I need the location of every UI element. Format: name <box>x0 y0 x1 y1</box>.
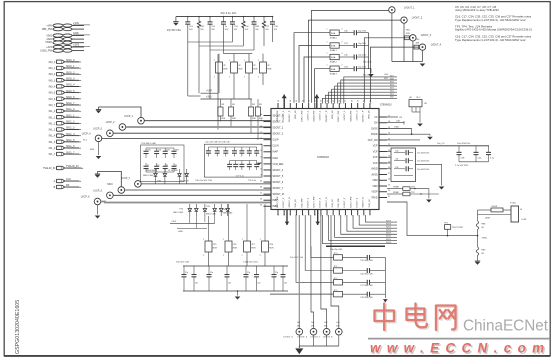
svg-text:10p C0G: 10p C0G <box>358 55 366 57</box>
svg-text:BGA: BGA <box>331 68 336 71</box>
svg-text:Type Replacements (1-LVIT100-3: Type Replacements (1-LVIT100-3) - GR 564… <box>455 18 526 22</box>
svg-text:49: 49 <box>260 180 262 182</box>
svg-text:DOUT_PW: DOUT_PW <box>350 196 352 208</box>
svg-text:LVCP_3: LVCP_3 <box>93 127 102 130</box>
svg-text:SIG1_3: SIG1_3 <box>66 127 75 130</box>
svg-text:27p: 27p <box>247 272 250 274</box>
svg-text:LVOUT_8: LVOUT_8 <box>323 337 333 339</box>
svg-text:IN1_3: IN1_3 <box>49 129 56 132</box>
svg-text:SDOUT_2: SDOUT_2 <box>273 128 284 130</box>
svg-text:10p C0G: 10p C0G <box>358 30 366 32</box>
svg-text:IN0_2: IN0_2 <box>49 73 56 76</box>
svg-text:30: 30 <box>388 190 390 192</box>
svg-text:C18 39p C0B: C18 39p C0B <box>360 297 373 299</box>
svg-text:SMLO 0B0: SMLO 0B0 <box>206 214 217 216</box>
svg-text:10n 50V/C0G: 10n 50V/C0G <box>417 161 430 163</box>
svg-text:31: 31 <box>388 196 390 198</box>
svg-text:IN1_2: IN1_2 <box>49 122 56 125</box>
svg-text:1: 1 <box>327 29 328 31</box>
svg-text:56: 56 <box>260 138 262 140</box>
svg-text:SIG0_4: SIG0_4 <box>66 84 75 87</box>
svg-text:DOUT_PW: DOUT_PW <box>338 110 340 122</box>
svg-text:57: 57 <box>345 100 347 102</box>
svg-text:BGA/L1: BGA/L1 <box>330 49 337 52</box>
svg-text:CK: CK <box>374 117 378 119</box>
svg-text:BGA/L3: BGA/L3 <box>330 72 337 75</box>
svg-text:SDO7: SDO7 <box>386 220 391 222</box>
svg-text:MOC: MOC <box>107 183 113 186</box>
svg-text:11: 11 <box>308 214 310 216</box>
svg-text:VSS_18: VSS_18 <box>295 199 297 208</box>
svg-text:/TLO: /TLO <box>416 97 421 99</box>
svg-text:10n 50V/C0G: 10n 50V/C0G <box>417 153 430 155</box>
svg-text:60: 60 <box>260 114 262 116</box>
svg-text:SDO6: SDO6 <box>386 224 391 226</box>
svg-text:SD1: SD1 <box>390 94 394 96</box>
svg-text:2: 2 <box>223 255 224 257</box>
svg-text:TVS: TVS <box>223 209 228 211</box>
svg-text:VCP: VCP <box>373 163 378 165</box>
svg-text:VRM8: VRM8 <box>393 187 400 189</box>
svg-text:LVCP_7: LVCP_7 <box>121 177 130 180</box>
svg-text:VSS_18: VSS_18 <box>332 199 334 208</box>
svg-text:VRM: VRM <box>372 180 377 182</box>
svg-text:R0R: R0R <box>213 248 218 250</box>
svg-text:DOUT_PW: DOUT_PW <box>277 196 279 208</box>
svg-text:LVOUT_6: LVOUT_6 <box>320 197 322 207</box>
svg-text:LVOUT_2: LVOUT_2 <box>412 17 423 20</box>
svg-text:58: 58 <box>351 100 353 102</box>
svg-text:IN1_7: IN1_7 <box>49 153 56 156</box>
svg-text:1: 1 <box>327 65 328 67</box>
svg-text:54: 54 <box>260 150 262 152</box>
svg-text:LVCP_1: LVCP_1 <box>124 115 133 118</box>
svg-text:1: 1 <box>327 53 328 55</box>
svg-text:GND: GND <box>178 231 183 233</box>
svg-text:SIG0_2: SIG0_2 <box>66 71 75 74</box>
svg-text:VCP: VCP <box>373 151 378 153</box>
svg-text:1: 1 <box>370 215 372 216</box>
svg-text:C15 39p C0B: C15 39p C0B <box>360 260 373 262</box>
svg-text:C17 39p C0B: C17 39p C0B <box>360 285 373 287</box>
svg-text:27p 50V C0G: 27p 50V C0G <box>290 257 304 259</box>
svg-text:27p 0.1u 10n: 27p 0.1u 10n <box>221 11 237 15</box>
svg-text:TVSD: TVSD <box>482 238 488 240</box>
svg-text:AVSS: AVSS <box>372 173 378 176</box>
svg-text:C3a 27p 50V C0G: C3a 27p 50V C0G <box>195 180 212 182</box>
svg-text:VCM_REF: VCM_REF <box>273 164 285 166</box>
svg-text:SDO1: SDO1 <box>386 239 391 241</box>
svg-text:1u: 1u <box>147 165 149 167</box>
svg-text:JP 2: JP 2 <box>334 278 338 280</box>
svg-text:10n 50V/C0G: 10n 50V/C0G <box>417 169 430 171</box>
svg-text:VSS_18: VSS_18 <box>369 199 371 208</box>
svg-text:SIG1_5: SIG1_5 <box>66 139 75 142</box>
svg-text:46: 46 <box>278 100 280 102</box>
svg-text:SIG0_0: SIG0_0 <box>66 59 75 62</box>
svg-text:2: 2 <box>342 65 343 67</box>
svg-text:using VR2A/1FF re-assy TVB-22: using VR2A/1FF re-assy TVB-2232 <box>455 8 499 12</box>
svg-text:1: 1 <box>230 23 231 25</box>
svg-text:2: 2 <box>229 77 230 79</box>
svg-text:LVOUT_6: LVOUT_6 <box>298 337 308 339</box>
svg-text:14: 14 <box>290 214 292 216</box>
svg-text:SDOUT_4: SDOUT_4 <box>273 170 284 172</box>
svg-text:S789/610: S789/610 <box>317 155 329 159</box>
svg-text:2: 2 <box>342 29 343 31</box>
svg-text:15: 15 <box>284 214 286 216</box>
svg-text:IN1_0: IN1_0 <box>49 110 56 113</box>
svg-text:50: 50 <box>260 174 262 176</box>
svg-text:JP 0: JP 0 <box>334 253 338 255</box>
svg-text:TVS: TVS <box>206 206 211 208</box>
svg-text:LVCP_5: LVCP_5 <box>93 189 102 192</box>
svg-text:CLK_PW: CLK_PW <box>338 198 340 208</box>
svg-text:C41: C41 <box>395 159 398 161</box>
svg-text:OK: OK <box>399 117 403 119</box>
svg-text:IN0_3: IN0_3 <box>49 79 56 82</box>
svg-text:1: 1 <box>221 23 222 25</box>
svg-text:LVCP_6: LVCP_6 <box>81 196 90 199</box>
svg-text:27p: 27p <box>275 272 278 274</box>
svg-text:T400: T400 <box>394 126 400 128</box>
svg-text:1: 1 <box>327 41 328 43</box>
svg-text:27p: 27p <box>185 272 188 274</box>
svg-text:10n: 10n <box>257 283 260 285</box>
svg-text:TVALID_IN: TVALID_IN <box>43 167 56 170</box>
svg-text:2: 2 <box>244 77 245 79</box>
svg-text:CLKN: CLKN <box>273 146 279 148</box>
svg-text:2: 2 <box>214 77 215 79</box>
svg-text:51: 51 <box>260 168 262 170</box>
svg-text:BGA/L0: BGA/L0 <box>330 36 337 39</box>
svg-text:BGA: BGA <box>331 56 336 59</box>
svg-text:TVS SMLO 0B0: TVS SMLO 0B0 <box>141 143 157 145</box>
svg-text:2: 2 <box>242 255 243 257</box>
svg-text:SDOUT_M: SDOUT_M <box>273 194 284 196</box>
svg-text:LVOUT_1: LVOUT_1 <box>404 7 415 10</box>
svg-text:INAN: INAN <box>273 157 279 160</box>
svg-text:LVOUT_2: LVOUT_2 <box>320 110 322 120</box>
svg-text:28: 28 <box>388 179 390 181</box>
svg-text:1: 1 <box>197 23 198 25</box>
svg-text:1: 1 <box>214 60 215 62</box>
svg-text:1: 1 <box>262 23 263 25</box>
svg-text:LVOUT_2: LVOUT_2 <box>283 110 285 120</box>
svg-text:1: 1 <box>208 23 209 25</box>
svg-text:55: 55 <box>260 144 262 146</box>
svg-text:+3V3: +3V3 <box>73 43 80 46</box>
svg-text:29: 29 <box>388 184 390 186</box>
svg-text:12: 12 <box>302 214 304 216</box>
svg-text:AVDD: AVDD <box>371 168 378 171</box>
svg-text:www.ECCN.com: www.ECCN.com <box>370 341 550 356</box>
svg-text:1: 1 <box>244 60 245 62</box>
svg-text:LVCP_4: LVCP_4 <box>82 133 91 136</box>
svg-text:C116 50V C0G: C116 50V C0G <box>243 262 258 264</box>
svg-text:SIG0_3: SIG0_3 <box>66 77 75 80</box>
svg-text:SIG1_6: SIG1_6 <box>66 145 75 148</box>
svg-text:LVOUT_5: LVOUT_5 <box>283 337 293 339</box>
svg-text:SDOUT_N: SDOUT_N <box>363 197 365 208</box>
svg-text:SD0: SD0 <box>390 97 394 99</box>
svg-text:C16 39p C0B: C16 39p C0B <box>360 273 373 275</box>
svg-text:49: 49 <box>296 100 298 102</box>
svg-text:SIG0_7: SIG0_7 <box>66 102 75 105</box>
svg-text:+3V3: +3V3 <box>171 221 177 223</box>
svg-text:1u: 1u <box>157 165 159 167</box>
svg-text:IN0_5: IN0_5 <box>49 92 56 95</box>
svg-text:SD4: SD4 <box>390 85 394 87</box>
svg-text:SDO2: SDO2 <box>386 236 391 238</box>
svg-text:SDOUT_6: SDOUT_6 <box>273 182 284 184</box>
svg-text:2: 2 <box>203 255 204 257</box>
svg-text:1u: 1u <box>175 165 177 167</box>
svg-text:C0G: C0G <box>384 74 389 76</box>
svg-text:1: 1 <box>260 239 261 241</box>
svg-text:27: 27 <box>388 173 390 175</box>
svg-text:S7999/610: S7999/610 <box>380 104 392 107</box>
svg-text:R0R: R0R <box>253 69 258 71</box>
svg-text:VDDD_PW: VDDD_PW <box>314 110 316 122</box>
svg-text:LVOUT_6: LVOUT_6 <box>283 197 285 207</box>
svg-text:SD2: SD2 <box>390 91 394 93</box>
svg-text:SDOUT_N: SDOUT_N <box>326 197 328 208</box>
svg-text:SIG1_1: SIG1_1 <box>66 114 75 117</box>
svg-text:SD3: SD3 <box>390 88 394 90</box>
svg-text:CLKOUT_P: CLKOUT_P <box>363 110 365 122</box>
svg-text:IN1_6: IN1_6 <box>49 147 56 150</box>
svg-text:SD5: SD5 <box>390 81 394 83</box>
svg-text:1: 1 <box>242 239 243 241</box>
svg-text:T35 0.1u: T35 0.1u <box>248 180 257 182</box>
svg-text:SDO5: SDO5 <box>386 227 391 229</box>
svg-text:JP 3: JP 3 <box>334 290 338 292</box>
svg-text:5V/0R: 5V/0R <box>492 206 498 208</box>
svg-text:R0R: R0R <box>269 248 274 250</box>
svg-text:1: 1 <box>186 23 187 25</box>
svg-text:VCP: VCP <box>373 146 378 148</box>
svg-text:C1b 39p C0B: C1b 39p C0B <box>330 249 343 251</box>
svg-text:39p C0G: 39p C0G <box>363 62 372 64</box>
svg-text:LVDS_PW: LVDS_PW <box>40 49 52 52</box>
svg-text:59: 59 <box>260 120 262 122</box>
svg-text:VBF_PW: VBF_PW <box>42 28 53 31</box>
svg-text:C40: C40 <box>395 151 398 153</box>
svg-text:SIG1_0: SIG1_0 <box>66 108 75 111</box>
svg-text:ChinaECNet: ChinaECNet <box>463 318 549 335</box>
svg-text:BGA: BGA <box>331 32 336 35</box>
svg-text:C0a 50V/C0G: C0a 50V/C0G <box>457 143 470 145</box>
svg-text:10n: 10n <box>284 283 287 285</box>
svg-text:LVOUT_2: LVOUT_2 <box>356 110 358 120</box>
svg-text:2: 2 <box>342 41 343 43</box>
svg-text:LVOUT_1: LVOUT_1 <box>344 110 346 120</box>
svg-text:IN0_4: IN0_4 <box>49 86 56 89</box>
svg-text:59: 59 <box>357 100 359 102</box>
svg-text:IN0_0: IN0_0 <box>49 61 56 64</box>
svg-text:1: 1 <box>241 23 242 25</box>
svg-text:CLKOUT_P: CLKOUT_P <box>289 110 291 122</box>
svg-text:52: 52 <box>260 162 262 164</box>
svg-text:2: 2 <box>260 255 261 257</box>
svg-text:JP LB 0R8: JP LB 0R8 <box>168 170 178 172</box>
svg-text:SIG0_1: SIG0_1 <box>66 65 75 68</box>
svg-text:R0R: R0R <box>267 69 272 71</box>
svg-text:10n: 10n <box>195 283 198 285</box>
svg-text:SD7: SD7 <box>390 75 394 77</box>
svg-text:IN0_7: IN0_7 <box>49 104 56 107</box>
svg-text:48: 48 <box>260 187 262 189</box>
svg-text:SD6: SD6 <box>390 78 394 80</box>
svg-text:CLKOUT_P: CLKOUT_P <box>326 110 328 122</box>
svg-text:TVALID_IN: TVALID_IN <box>66 165 79 168</box>
svg-text:LVOUT_5: LVOUT_5 <box>344 197 346 207</box>
svg-text:10/0R: 10/0R <box>485 218 491 220</box>
svg-text:+VCP: +VCP <box>206 91 213 93</box>
svg-text:BGA: BGA <box>331 45 336 48</box>
svg-text:VDDD_PW: VDDD_PW <box>277 110 279 122</box>
svg-text:+VIN: +VIN <box>73 22 79 25</box>
svg-text:CON4: CON4 <box>521 219 526 221</box>
svg-text:VRM: VRM <box>372 186 377 188</box>
svg-text:LVOUT_1: LVOUT_1 <box>307 110 309 120</box>
svg-text:R0R: R0R <box>251 248 256 250</box>
svg-text:DVSS: DVSS <box>371 128 378 130</box>
svg-text:SDOUT_5: SDOUT_5 <box>273 176 284 178</box>
svg-text:Type Replacements (1-LVIT100-3: Type Replacements (1-LVIT100-3) - GR 564… <box>455 38 526 42</box>
svg-text:+3V3: +3V3 <box>206 97 212 99</box>
svg-text:IN1_1: IN1_1 <box>49 116 56 119</box>
svg-text:LVOUT_4: LVOUT_4 <box>431 44 442 47</box>
svg-text:CLK_PW: CLK_PW <box>301 198 303 208</box>
svg-text:C37 0.1u: C37 0.1u <box>236 176 244 178</box>
svg-text:JP 1: JP 1 <box>334 266 338 268</box>
svg-text:SMLB 0B0: SMLB 0B0 <box>146 170 156 172</box>
svg-text:SDO0: SDO0 <box>386 242 391 244</box>
svg-text:VDD_18: VDD_18 <box>295 110 297 119</box>
svg-text:27p 50V C0G: 27p 50V C0G <box>176 262 190 264</box>
svg-text:R0R: R0R <box>233 248 238 250</box>
svg-text:LVCP_2: LVCP_2 <box>106 121 115 124</box>
svg-text:SIG1_2: SIG1_2 <box>66 121 75 124</box>
svg-text:SMLO 0B0: SMLO 0B0 <box>143 175 154 177</box>
svg-text:58: 58 <box>260 126 262 128</box>
svg-text:DOUT_PW: DOUT_PW <box>314 196 316 208</box>
svg-text:GND: GND <box>73 32 79 35</box>
svg-text:VDD_18: VDD_18 <box>332 110 334 119</box>
svg-text:DK: DK <box>66 184 70 187</box>
svg-text:45: 45 <box>260 205 262 207</box>
svg-text:DigiKey (470-1432-6-ND) Murata: DigiKey (470-1432-6-ND) Murata 10WR29075… <box>455 28 533 32</box>
svg-text:C3a C35 C38 C30 C3b C30: C3a C35 C38 C30 C3b C30 <box>205 142 231 144</box>
svg-text:1: 1 <box>223 239 224 241</box>
svg-text:IN0_1: IN0_1 <box>49 67 56 70</box>
svg-text:TVSD: TVSD <box>510 203 516 205</box>
svg-text:C42: C42 <box>395 167 398 169</box>
svg-text:2: 2 <box>258 77 259 79</box>
svg-text:CM: CM <box>374 123 378 125</box>
svg-text:DVDD: DVDD <box>371 134 378 136</box>
svg-text:10n_C0: 10n_C0 <box>437 143 445 145</box>
svg-text:10n: 10n <box>228 283 231 285</box>
svg-text:SMLO 0B0: SMLO 0B0 <box>173 212 184 214</box>
svg-text:46: 46 <box>260 199 262 201</box>
svg-text:SDO4: SDO4 <box>386 230 391 232</box>
svg-text:1: 1 <box>270 23 271 25</box>
svg-text:1u: 1u <box>166 165 168 167</box>
svg-text:IN1_4: IN1_4 <box>49 135 56 138</box>
svg-text:DOUT_PW: DOUT_PW <box>301 110 303 122</box>
svg-text:OUT_CM: OUT_CM <box>368 140 378 142</box>
svg-text:2: 2 <box>342 53 343 55</box>
svg-text:LVOUT_5: LVOUT_5 <box>307 197 309 207</box>
svg-text:SDOUT_3: SDOUT_3 <box>273 134 284 136</box>
svg-text:R0R: R0R <box>223 69 228 71</box>
svg-text:47: 47 <box>260 193 262 195</box>
svg-text:49R: 49R <box>406 33 410 35</box>
svg-text:IN0_6: IN0_6 <box>49 98 56 101</box>
svg-text:57: 57 <box>260 132 262 134</box>
svg-text:VSSP: VSSP <box>371 192 378 194</box>
svg-text:SDOUT_7: SDOUT_7 <box>273 188 284 190</box>
svg-text:10p C0G: 10p C0G <box>358 66 366 68</box>
svg-text:VSSD: VSSD <box>45 41 52 44</box>
svg-text:BGA/L2: BGA/L2 <box>330 61 337 64</box>
svg-text:VRM0: VRM0 <box>393 192 400 194</box>
svg-text:48: 48 <box>290 100 292 102</box>
svg-text:13: 13 <box>296 214 298 216</box>
svg-text:VDDD_PW: VDDD_PW <box>350 110 352 122</box>
svg-text:1: 1 <box>203 239 204 241</box>
svg-text:R0R: R0R <box>238 69 243 71</box>
svg-text:2.2u 50V X5R: 2.2u 50V X5R <box>455 165 468 167</box>
svg-text:27p 50V C0G: 27p 50V C0G <box>167 30 181 32</box>
svg-text:SIG0_6: SIG0_6 <box>66 96 75 99</box>
svg-text:TVS: TVS <box>179 209 184 211</box>
svg-text:39p C0G: 39p C0G <box>363 75 372 77</box>
svg-text:SIG0_5: SIG0_5 <box>66 90 75 93</box>
svg-text:1: 1 <box>229 60 230 62</box>
svg-text:SMLO 0B0: SMLO 0B0 <box>223 213 234 215</box>
svg-text:16: 16 <box>278 214 280 216</box>
svg-text:VCP: VCP <box>373 157 378 159</box>
svg-text:CLK: CLK <box>66 178 71 181</box>
svg-text:VDD_18: VDD_18 <box>369 110 371 119</box>
svg-text:SIG1_4: SIG1_4 <box>66 133 75 136</box>
svg-text:LVOUT_7: LVOUT_7 <box>311 337 321 339</box>
svg-text:1: 1 <box>252 23 253 25</box>
svg-text:SDO3: SDO3 <box>386 233 391 235</box>
svg-text:27p: 27p <box>210 272 213 274</box>
svg-text:SIG1_7: SIG1_7 <box>66 151 75 154</box>
svg-text:TRKD: TRKD <box>371 197 378 199</box>
svg-text:10: 10 <box>315 214 317 216</box>
svg-text:LVOUT_3: LVOUT_3 <box>421 34 432 37</box>
svg-text:INAP: INAP <box>273 151 279 154</box>
svg-text:53: 53 <box>260 156 262 158</box>
svg-text:TEST POINT: TEST POINT <box>452 227 464 229</box>
svg-text:GSPG01302040E1605: GSPG01302040E1605 <box>15 300 21 354</box>
svg-text:49R: 49R <box>416 42 420 44</box>
svg-text:SDOUT_N: SDOUT_N <box>289 197 291 208</box>
svg-text:LVOUT_6: LVOUT_6 <box>356 197 358 207</box>
svg-text:CLKP: CLKP <box>273 140 279 142</box>
svg-text:10p C0G: 10p C0G <box>358 43 366 45</box>
svg-text:IN1_5: IN1_5 <box>49 141 56 144</box>
svg-text:1: 1 <box>258 60 259 62</box>
